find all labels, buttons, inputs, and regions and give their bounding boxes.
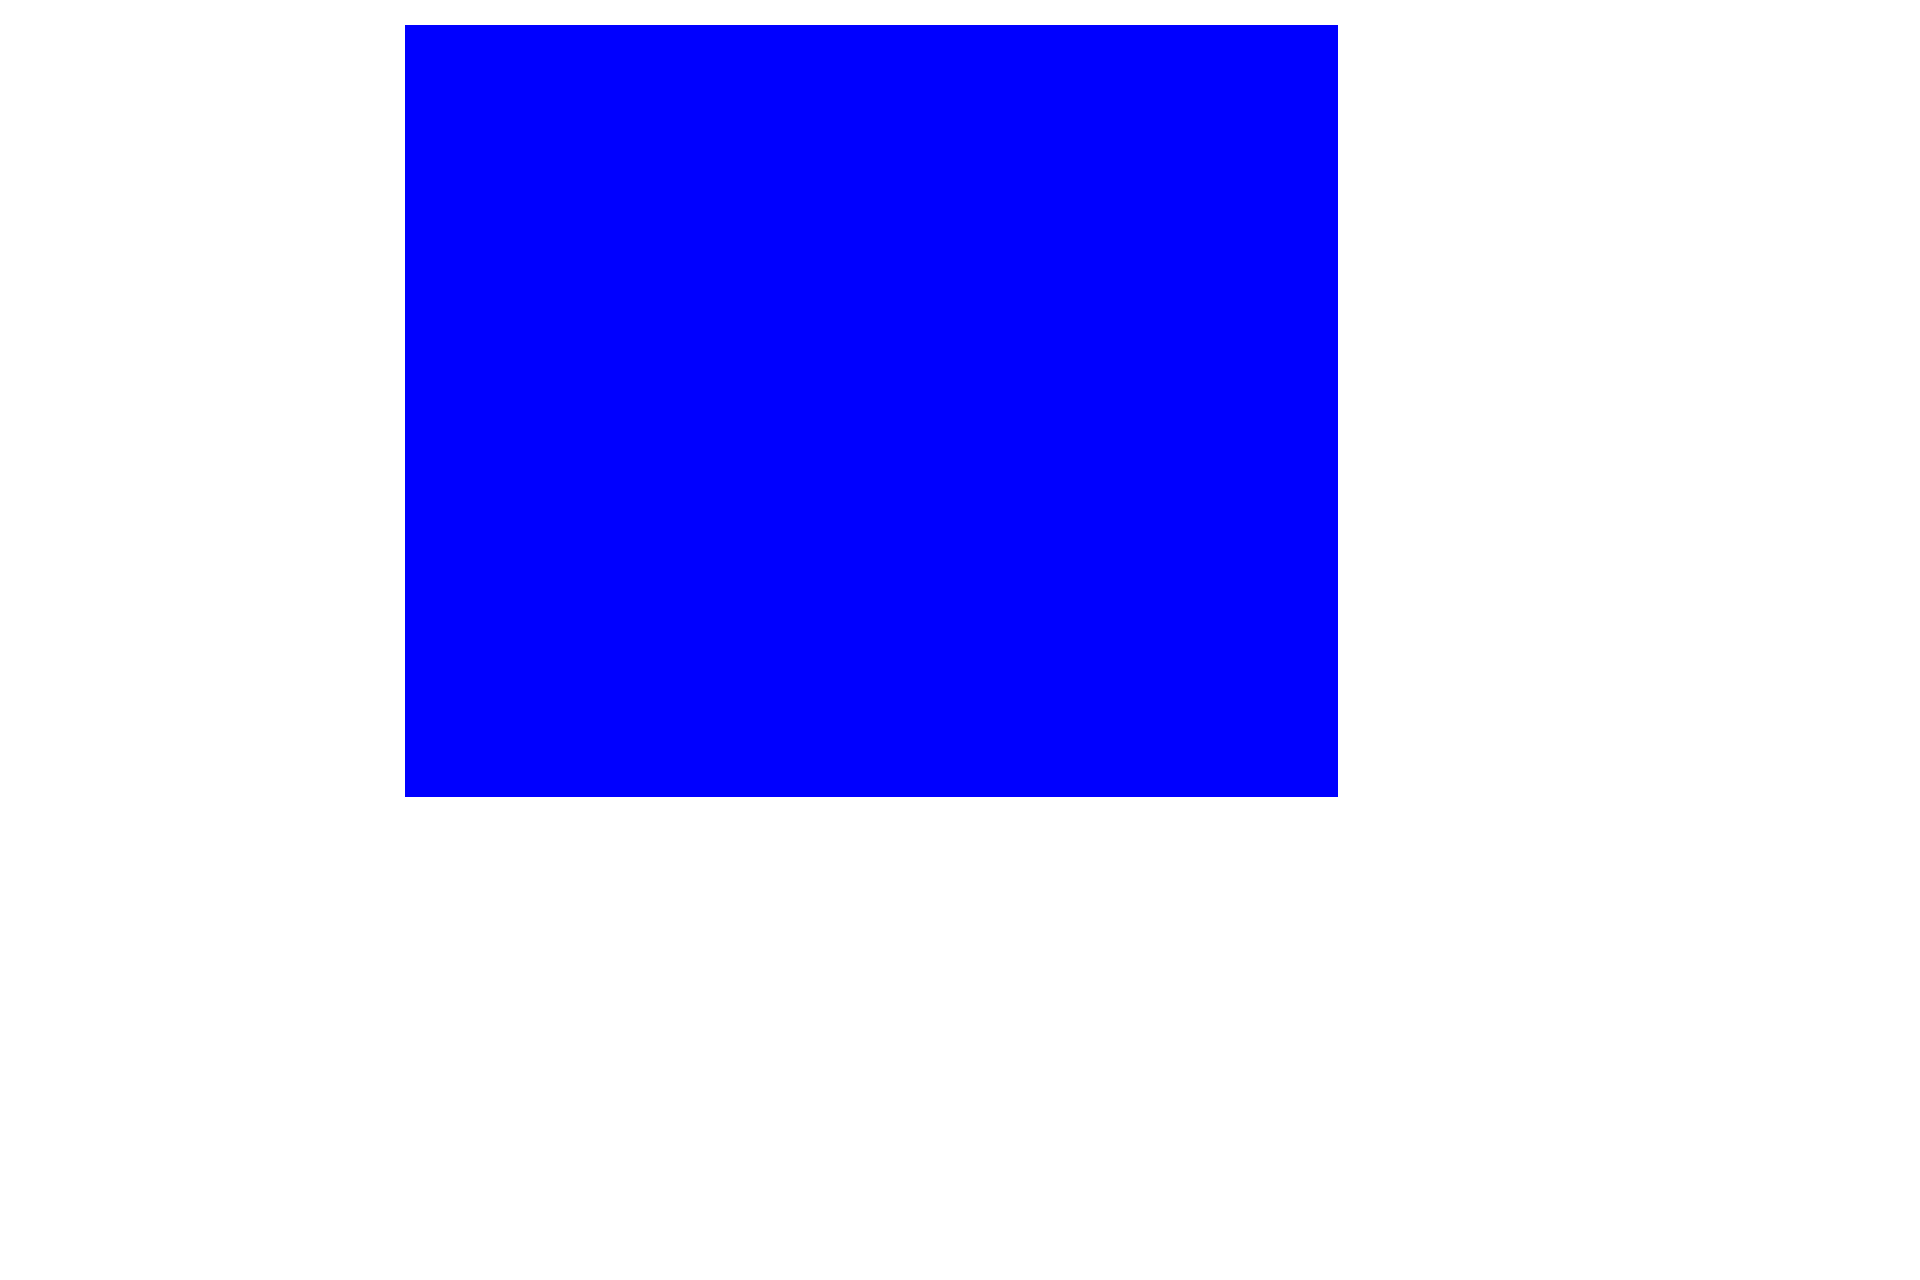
blue rectangle (405, 25, 1338, 797)
